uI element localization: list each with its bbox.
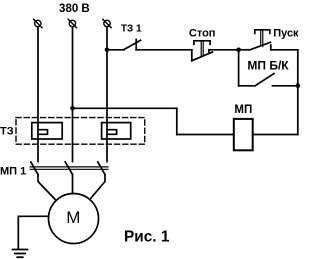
motor M1 — [49, 194, 99, 244]
terminal X1 (phase 1) — [34, 19, 42, 27]
node A (Pusk branch) — [236, 48, 241, 53]
pushbutton Stop (NC) — [192, 41, 213, 61]
wire right rail vertical — [297, 50, 299, 135]
node B (aux contact join) — [296, 83, 301, 88]
coil MP — [234, 119, 253, 150]
wire motor to ground — [18, 216, 48, 248]
svg-text:М: М — [66, 208, 80, 227]
svg-text:Рис. 1: Рис. 1 — [124, 229, 170, 246]
node on phase 3 (control tap) — [105, 48, 110, 53]
svg-text:Пуск: Пуск — [273, 28, 299, 40]
wire to TZ1 contact — [107, 49, 124, 51]
ground — [13, 250, 28, 258]
contact TZ1 (NC thermal relay contact) — [124, 39, 141, 50]
wire phase 1 vertical — [37, 27, 39, 162]
contact MP B/K (NO auxiliary) — [239, 74, 298, 86]
heater element TZ phase3 — [102, 123, 131, 139]
wire Stop to Pusk node — [209, 49, 239, 51]
contact MP1 pole 3 — [98, 162, 105, 175]
wire TZ1 to Stop — [136, 49, 192, 51]
svg-text:ТЗ 1: ТЗ 1 — [121, 24, 142, 35]
pushbutton Pusk (NO) — [239, 30, 271, 50]
svg-text:380 В: 380 В — [59, 3, 90, 15]
svg-text:ТЗ: ТЗ — [0, 126, 14, 138]
wire pole2 to motor — [72, 175, 74, 194]
wire coil return vertical — [176, 108, 178, 134]
wire aux branch left vertical — [238, 50, 240, 86]
contact MP1 pole 2 — [65, 162, 72, 175]
wire coil right — [253, 134, 298, 136]
wire coil left — [177, 134, 234, 136]
svg-text:МП: МП — [234, 104, 252, 116]
wire Pusk to right rail — [271, 49, 298, 51]
wire pole1 to motor — [38, 175, 56, 201]
heater element TZ phase1 — [32, 123, 62, 139]
wire pole3 to motor — [90, 175, 105, 200]
dashed box thermal relay TZ — [16, 118, 145, 145]
contactor linkage bar — [30, 167, 108, 169]
wire coil return horizontal — [73, 107, 177, 109]
svg-text:МП Б/К: МП Б/К — [247, 58, 289, 72]
terminal X2 (phase 2) — [68, 19, 76, 27]
svg-text:Стоп: Стоп — [189, 27, 216, 39]
terminal X3 (phase 3) — [103, 19, 111, 27]
contact MP1 pole 1 — [31, 162, 38, 175]
wire phase 2 vertical — [72, 27, 74, 162]
node on phase 2 (coil return) — [70, 106, 75, 111]
wire phase 3 vertical — [106, 27, 108, 162]
svg-text:МП 1: МП 1 — [0, 166, 26, 178]
